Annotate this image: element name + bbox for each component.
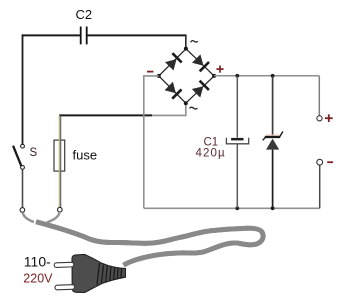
svg-text:fuse: fuse [73,148,98,163]
label + output [325,114,333,122]
capacitor C2 [81,27,87,45]
fuse body [54,140,65,171]
diode D3 (left-bottom edge, anode at left node) [165,82,182,99]
label + at right node [216,66,223,73]
wire C1 stem upper [236,76,238,138]
wire C1 stem lower [236,144,238,208]
svg-text:S: S [30,147,38,159]
wire fuse top horizontal (black part) [59,114,152,116]
plug body [72,254,126,292]
wire switch to cord terminal [22,169,24,207]
power cord lead from left terminal [23,212,34,222]
wire right vertical to + terminal [318,76,320,116]
plug top prong [54,262,74,267]
svg-text:220V: 220V [23,272,53,286]
svg-text:420µ: 420µ [196,147,226,159]
wire top positive rail [214,75,319,77]
diode D1 (left-top edge, anode at left node) [165,53,182,70]
switch S bottom contact [21,166,25,170]
plug strain-relief ridges [97,263,122,285]
power cord main run (fill tone) [36,222,263,265]
svg-text:C2: C2 [76,7,93,22]
cord terminal left circle [20,208,25,213]
wire - terminal down to bottom rail [319,165,321,208]
diode D2 (top-right edge, cathode at right node) [192,54,209,71]
wire bridge top drop [185,35,187,48]
capacitor C1 top plate [231,138,243,141]
label ~ bottom [190,107,198,109]
cord terminal right circle [58,207,63,212]
junction dot top rail at zener [271,74,275,78]
node top (~) [184,47,188,51]
fuse wire olive line [58,116,60,208]
wire left vertical down to switch [22,34,24,144]
bridge edge B-R [186,76,214,103]
terminal - circle [317,159,323,165]
node bottom (~) [184,101,188,105]
svg-text:110-: 110- [24,254,51,270]
wire zener stem upper [272,76,274,136]
junction dot bottom rail at C1 [235,206,239,210]
node left (-) [157,74,161,78]
terminal + circle [317,116,322,121]
bridge edge T-R [186,49,214,76]
junction dot top rail at C1 [235,74,239,78]
wire top rail from left corner to C2 left plate [22,34,80,36]
fuse wire dark companion line [60,116,62,208]
label - at left node [147,71,153,73]
label - output [327,161,333,163]
diode D4 (bottom-right edge, cathode at right node) [192,81,209,98]
power cord main run with loop (outline) [36,222,263,265]
bridge edge L-B [159,76,186,103]
label ~ top [191,41,198,43]
switch S top contact [21,144,25,148]
capacitor C1 bottom cup plate [226,138,248,144]
bridge edge L-T [159,49,186,76]
plug bottom prong [55,285,75,290]
node right (+) [212,74,216,78]
wire bottom rail [144,207,320,209]
junction dot bottom rail at zener [271,206,275,210]
wire fuse horizontal gray part and riser to bridge bottom node [152,104,186,115]
wire zener stem lower [272,150,274,209]
switch S lever [13,147,21,166]
wire left node branch down to bottom rail [144,76,159,208]
power cord lead from right terminal [47,212,60,222]
wire top rail from C2 right plate to bridge corner [87,34,187,36]
zener diode Z1 [263,132,283,150]
